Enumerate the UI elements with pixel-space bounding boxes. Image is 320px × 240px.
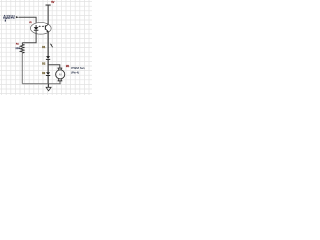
resistor R1 zigzag (20, 43, 24, 53)
wire branch to fan (48, 65, 60, 68)
ground rail wire (22, 83, 60, 85)
svg-text:5V: 5V (51, 0, 54, 4)
svg-text:PWM fan: PWM fan (71, 66, 85, 70)
value mark right of D1 (50, 44, 53, 48)
light arrows (39, 26, 45, 28)
diode D2 (46, 72, 50, 75)
svg-text:Digital Pin: Digital Pin (3, 16, 15, 19)
ground symbol (46, 84, 51, 91)
label PWM fan (71, 66, 85, 74)
power symbol 5V bar (46, 4, 51, 6)
node label Arduino Digital Pin (3, 14, 15, 22)
motor M1 (PWM fan) (56, 68, 65, 84)
wire D1 to D2 (47, 59, 49, 72)
wire 5V to collector (47, 6, 49, 25)
wire D2 to ground rail (47, 75, 49, 83)
wire LED cathode to resistor (22, 30, 36, 42)
wire resistor to ground rail (21, 53, 23, 84)
emitter arrowhead (46, 30, 48, 32)
wire emitter down to D1 (47, 31, 49, 56)
LED inside U1 (34, 25, 39, 30)
wire input to LED anode (19, 17, 36, 27)
node input arrow (16, 16, 19, 18)
optocoupler U1 ellipse body (30, 22, 51, 34)
diode D1 (46, 56, 50, 59)
svg-text:(Pin 4): (Pin 4) (71, 70, 79, 74)
phototransistor inside U1 (45, 24, 48, 31)
